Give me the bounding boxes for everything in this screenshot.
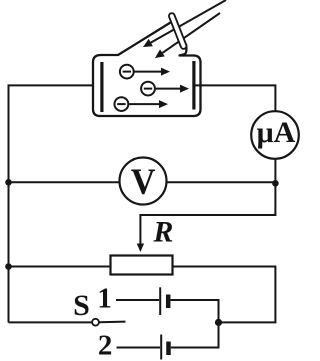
wire: battery 1 to node B <box>171 300 219 322</box>
electron e2 <box>141 82 189 96</box>
svg-text:μA: μA <box>257 116 296 149</box>
wire: resistor row right <box>173 267 276 323</box>
voltmeter V <box>120 158 167 205</box>
wire: contact 2 to battery 2 <box>117 347 161 349</box>
wiper arrow <box>137 244 144 253</box>
battery B1 <box>160 287 168 315</box>
switch S pivot <box>92 319 99 326</box>
wire: battery 2 to node B <box>171 322 219 347</box>
wire: contact 1 to battery 1 <box>116 299 159 301</box>
svg-text:S: S <box>73 289 90 322</box>
electron e3 <box>115 97 169 111</box>
wire: anode to microammeter <box>196 85 276 111</box>
svg-text:V: V <box>131 161 156 203</box>
anode plate A <box>192 61 195 110</box>
cathode plate K <box>100 62 103 112</box>
phototube envelope <box>93 23 201 117</box>
battery B2 <box>161 335 168 360</box>
svg-text:1: 1 <box>97 283 112 315</box>
svg-text:R: R <box>152 215 173 248</box>
microammeter uA <box>251 111 299 159</box>
wire: voltmeter branch right <box>167 181 276 183</box>
node B: battery junction <box>215 319 222 326</box>
wire: microammeter down to node A <box>274 159 276 184</box>
switch blade <box>99 321 126 324</box>
wire: left vertical rail <box>9 85 95 322</box>
quartz window <box>172 16 184 46</box>
wire: voltmeter branch left <box>9 181 120 183</box>
wire: bottom rail to switch <box>9 321 93 323</box>
electron e1 <box>120 65 170 79</box>
node A: right voltmeter junction <box>272 180 279 187</box>
node: left voltmeter junction <box>5 179 12 186</box>
wire: resistor row left <box>9 266 111 268</box>
light ray 1 <box>143 0 226 47</box>
rheostat R box <box>111 256 173 275</box>
node: left resistor junction <box>5 263 12 270</box>
wire: node A to rheostat wiper <box>140 183 275 244</box>
light ray 2 <box>155 13 220 58</box>
svg-text:2: 2 <box>98 330 113 361</box>
